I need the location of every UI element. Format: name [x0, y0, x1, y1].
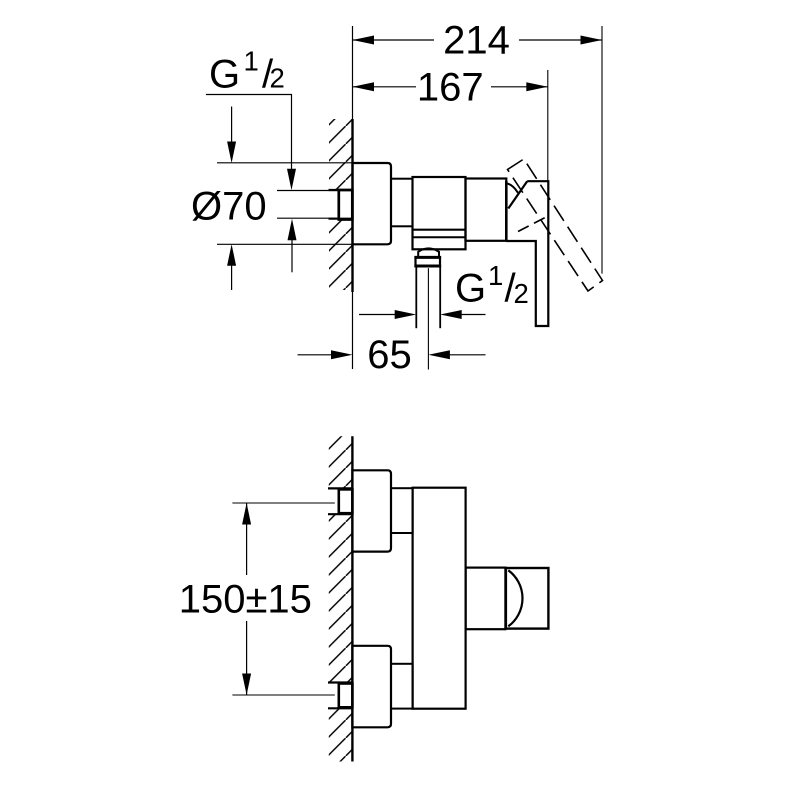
150 dimension bottom extension line	[232, 694, 334, 696]
bottom threaded nipple	[339, 684, 353, 708]
dimension 214 line left segment	[353, 39, 435, 41]
lever handle (solid, closed position)	[506, 181, 548, 326]
svg-text:G: G	[455, 267, 486, 311]
handle slanted face line	[508, 181, 527, 208]
cartridge knob (lower view)	[466, 568, 506, 630]
diameter 70 upper arrow	[231, 107, 233, 143]
167 right extension line	[547, 70, 549, 181]
arrowhead 150 bottom	[242, 674, 251, 696]
cartridge housing (upper view)	[466, 179, 507, 241]
wall line lower thin part / 65 left extension	[352, 292, 354, 369]
svg-text:214: 214	[443, 19, 510, 63]
bottom inlet hole edges in wall	[328, 681, 352, 683]
inlet hole lower edge in wall	[329, 218, 353, 220]
svg-text:1: 1	[488, 260, 503, 291]
svg-text:2: 2	[514, 278, 529, 309]
wall hatching (upper view, above inlet hole)	[329, 119, 353, 190]
dashed detail near pivot	[518, 216, 548, 232]
escutcheon flange (upper view)	[353, 163, 392, 244]
214 right extension line	[601, 26, 603, 274]
wall hatching (upper view, below inlet hole)	[329, 219, 353, 290]
pipe centre / 65 right extension line	[427, 268, 429, 369]
cartridge dome arc	[506, 183, 518, 193]
wall surface line (lower view)	[351, 436, 353, 761]
cartridge cap edge (thick vertical)	[505, 181, 508, 240]
inlet hole upper edge in wall	[329, 189, 353, 191]
G 1/2 lower arrow to pipe bottom	[291, 237, 293, 272]
150 dimension top extension line	[232, 502, 334, 504]
wall line / 214 left extension line (thin upper part)	[352, 26, 354, 119]
top neck (lower view)	[391, 488, 413, 533]
G 1/2 outlet dimension left tail with arrow	[359, 314, 395, 316]
G 1/2 leader underline	[206, 94, 292, 96]
neck between flange and body (upper view)	[391, 179, 413, 227]
dimension 65 left tail with arrow	[298, 354, 332, 356]
svg-text:1: 1	[244, 46, 259, 77]
bottom neck (lower view)	[391, 664, 413, 709]
arrowhead 167 left	[353, 82, 375, 91]
arrowhead 150 top	[242, 503, 251, 525]
wall surface line (thick)	[351, 119, 353, 292]
dome arc inside grip	[508, 570, 522, 626]
top escutcheon (lower view)	[352, 470, 391, 551]
G 1/2 leader vertical with arrow to pipe top	[291, 95, 293, 173]
150 dimension vertical line upper segment	[246, 503, 248, 575]
mixer body (lower view)	[413, 488, 466, 709]
dimension 167 line left segment	[353, 86, 417, 88]
diameter 70 upper extension line	[217, 162, 353, 164]
arrowhead 214 right	[581, 36, 603, 45]
inlet supply pipe bottom edge	[277, 217, 339, 219]
top threaded nipple	[339, 489, 353, 513]
diameter 70 lower arrow	[231, 265, 233, 290]
threaded nipple (S-union) in wall	[339, 190, 353, 220]
150 dimension vertical line lower segment	[246, 621, 248, 695]
lever grip end-on (lower view)	[506, 568, 549, 629]
G 1/2 outlet dimension right tail with arrow	[461, 314, 486, 316]
mixer body (upper view)	[413, 177, 466, 249]
arrowhead 214 left	[353, 36, 375, 45]
dimension 65 right tail with arrow	[449, 354, 485, 356]
dimension 214 line right segment	[519, 39, 602, 41]
arrowhead 167 right	[526, 82, 548, 91]
svg-text:2: 2	[270, 63, 285, 94]
top inlet hole edges in wall	[328, 487, 352, 489]
svg-text:150±15: 150±15	[179, 578, 312, 622]
bottom escutcheon (lower view)	[352, 646, 391, 728]
inlet supply pipe top edge	[277, 190, 339, 192]
dimension 167 line right segment	[491, 86, 548, 88]
lever handle open position (dashed)	[508, 159, 603, 291]
outlet collar dome below body	[418, 248, 439, 257]
wall hatching (lower view, between nipples)	[329, 514, 353, 682]
svg-text:Ø70: Ø70	[191, 185, 267, 229]
shower outlet pipe right wall	[439, 266, 441, 328]
shower outlet pipe left wall	[415, 266, 417, 328]
wall hatching (lower view, below bottom nipple)	[329, 708, 353, 761]
svg-text:65: 65	[367, 333, 412, 377]
body groove line 2	[413, 236, 466, 238]
wall hatching (lower view, above top nipple)	[329, 436, 353, 488]
svg-text:G: G	[209, 53, 240, 97]
body groove line 1	[413, 229, 466, 231]
outlet nut	[416, 257, 441, 266]
diameter 70 lower extension line	[217, 243, 353, 245]
svg-text:167: 167	[417, 65, 484, 109]
